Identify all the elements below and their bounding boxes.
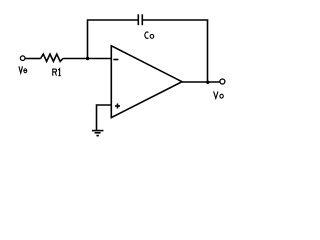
terminal Ve [20,56,25,61]
node A [86,57,89,60]
wire [143,19,208,21]
node B [206,81,209,84]
wire [63,58,111,60]
op-amp U1 [111,46,182,118]
wire [207,20,209,82]
op-amp minus input [113,59,118,61]
label R1 [53,69,61,76]
wire [87,19,138,21]
wire [182,81,220,83]
label Vo [214,91,224,98]
wire [87,20,89,59]
label Co [145,32,154,38]
terminal Vo [220,79,225,84]
label Ve [19,66,27,73]
wire [97,105,112,130]
resistor R1 [41,54,63,61]
wire [26,58,41,60]
capacitor Co [138,14,142,25]
ground [92,131,104,136]
op-amp plus input [115,104,120,109]
